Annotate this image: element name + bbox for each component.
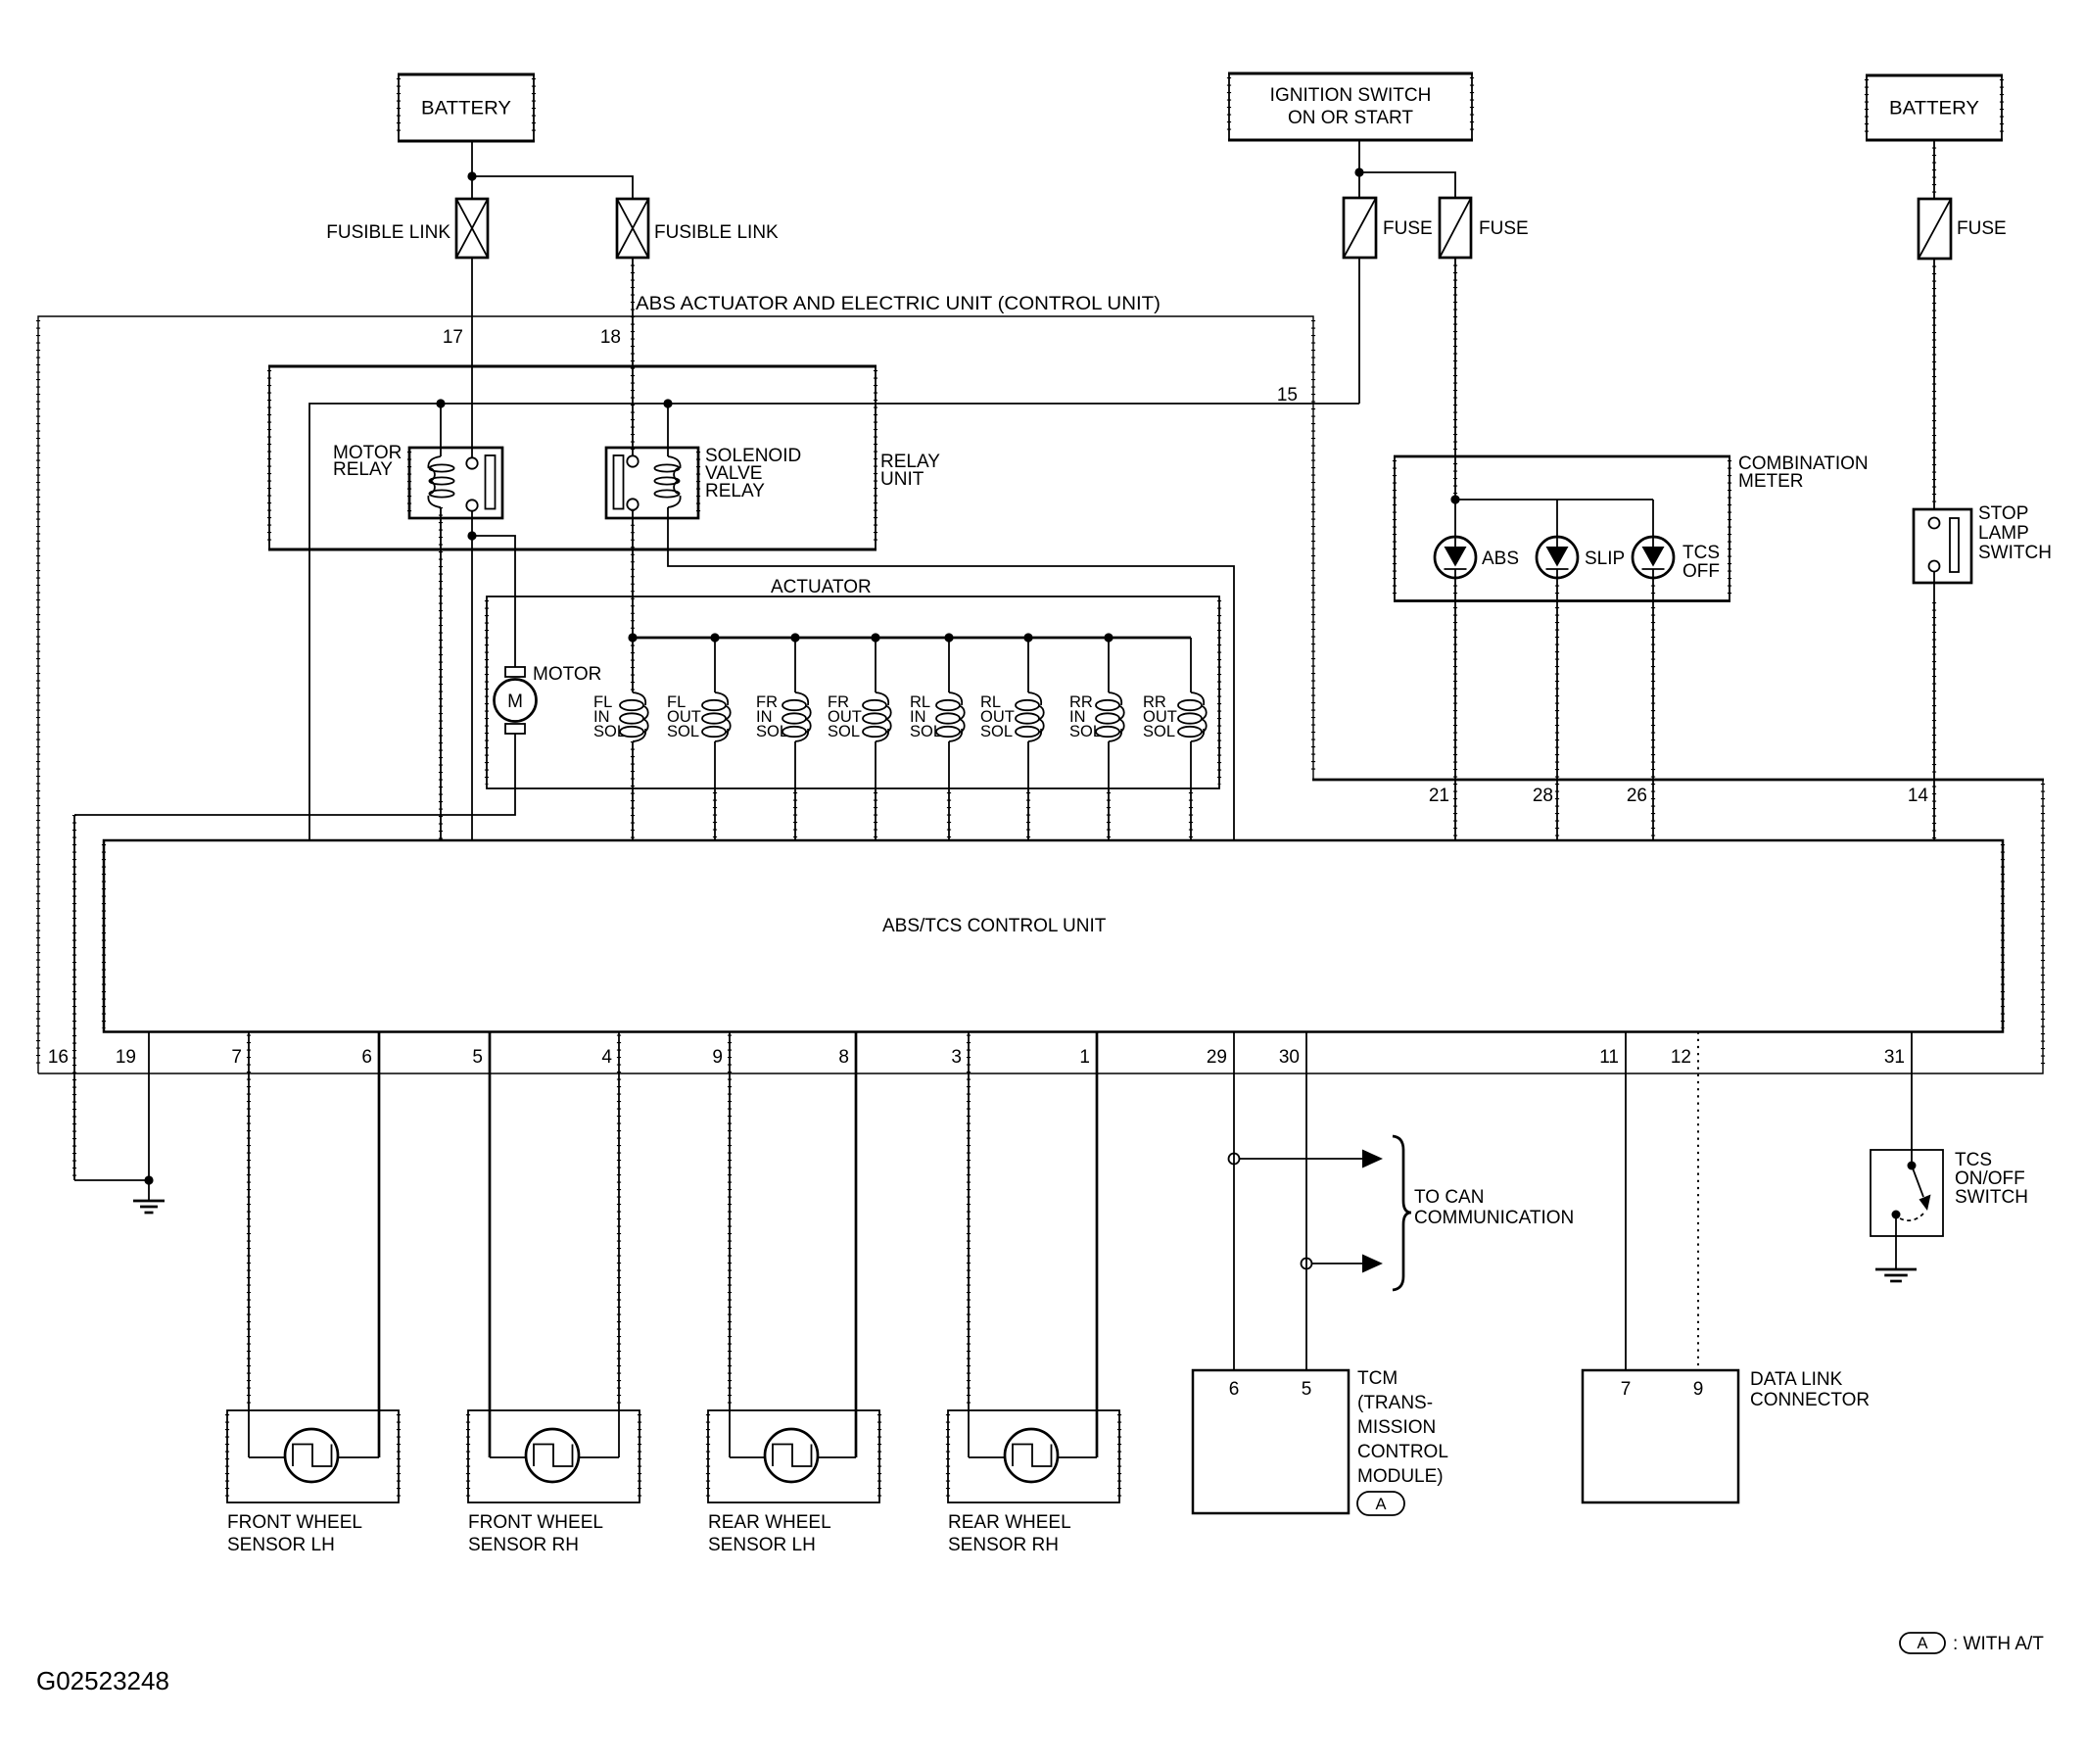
wheel sensor box REAR WHEEL SENSOR LH — [708, 1410, 879, 1502]
TCM box — [1193, 1370, 1349, 1513]
wire ABS lamp to control unit pin 21 — [1454, 578, 1456, 840]
solenoid FR OUT SOL — [863, 692, 891, 741]
wire control unit pin 11 to data link connector pin 7 — [1625, 1032, 1627, 1371]
svg-text:SOL: SOL — [828, 723, 860, 740]
svg-text:G02523248: G02523248 — [36, 1666, 169, 1695]
svg-text:14: 14 — [1908, 786, 1929, 806]
wire FR OUT SOL to control unit — [875, 741, 877, 840]
svg-text:ON OR START: ON OR START — [1288, 108, 1413, 128]
svg-text:UNIT: UNIT — [880, 469, 924, 490]
wheel sensor box FRONT WHEEL SENSOR LH — [227, 1410, 399, 1502]
wire bus to FL OUT SOL — [714, 638, 716, 692]
node bus tap FR OUT SOL — [871, 633, 879, 642]
svg-text:18: 18 — [600, 327, 621, 348]
svg-text:1: 1 — [1079, 1047, 1090, 1068]
svg-text:TCS: TCS — [1955, 1150, 1992, 1170]
svg-text:4: 4 — [601, 1047, 612, 1068]
svg-text:6: 6 — [361, 1047, 372, 1068]
solenoid valve relay K2 — [606, 448, 698, 518]
svg-text:12: 12 — [1671, 1047, 1691, 1068]
svg-text:TCM: TCM — [1357, 1368, 1398, 1389]
svg-text:METER: METER — [1738, 471, 1804, 492]
wire tap to motor relay coil — [440, 404, 442, 456]
node combination meter feed junction — [1450, 495, 1459, 503]
svg-text:ABS ACTUATOR AND ELECTRIC UNIT: ABS ACTUATOR AND ELECTRIC UNIT (CONTROL … — [636, 294, 1161, 314]
svg-text:7: 7 — [1621, 1379, 1632, 1400]
wire FL OUT SOL to control unit — [714, 741, 716, 840]
svg-text:SOL: SOL — [667, 723, 699, 740]
wire RL OUT SOL to control unit — [1027, 741, 1029, 840]
svg-text:IGNITION SWITCH: IGNITION SWITCH — [1270, 85, 1432, 106]
node solenoid valve relay coil tap — [663, 399, 672, 407]
svg-text:TCS: TCS — [1682, 543, 1720, 563]
ground chassis right — [1875, 1249, 1917, 1281]
svg-text:ON/OFF: ON/OFF — [1955, 1168, 2025, 1189]
motor relay contact circles — [466, 457, 477, 468]
svg-text:17: 17 — [443, 327, 463, 348]
wheel sensor box FRONT WHEEL SENSOR RH — [468, 1410, 640, 1502]
wire RR OUT SOL to control unit — [1190, 741, 1192, 840]
node bus tap RL IN SOL — [944, 633, 953, 642]
CAN arrow lower — [1312, 1263, 1363, 1264]
fusible link F1 — [456, 199, 488, 258]
svg-text:A: A — [1375, 1496, 1386, 1513]
svg-text:SOL: SOL — [756, 723, 788, 740]
wire fusible link 2 to solenoid valve relay contact, pin 18 — [632, 258, 634, 456]
wire control unit pin 8 to REAR WHEEL SENSOR LH — [855, 1032, 858, 1458]
wire solenoid valve relay contact to actuator bus — [632, 510, 634, 638]
node ground junction — [144, 1175, 153, 1184]
wire motor relay contact to junction — [471, 511, 473, 536]
svg-text:21: 21 — [1429, 786, 1449, 806]
svg-text:FRONT WHEEL: FRONT WHEEL — [227, 1512, 362, 1533]
wire TCS switch to ground — [1895, 1218, 1897, 1249]
wire bus to RL OUT SOL — [1027, 638, 1029, 692]
wire bus to FL IN SOL — [632, 638, 634, 692]
svg-text:SWITCH: SWITCH — [1978, 543, 2052, 563]
svg-text:REAR WHEEL: REAR WHEEL — [948, 1512, 1071, 1533]
wire control unit pin 3 to REAR WHEEL SENSOR RH — [968, 1032, 970, 1458]
svg-text:REAR WHEEL: REAR WHEEL — [708, 1512, 831, 1533]
wire RL IN SOL to control unit — [948, 741, 950, 840]
svg-text:STOP: STOP — [1978, 503, 2028, 524]
svg-text:SOL: SOL — [980, 723, 1013, 740]
svg-text:3: 3 — [951, 1047, 962, 1068]
svg-text:SOL: SOL — [1069, 723, 1102, 740]
svg-text:LAMP: LAMP — [1978, 523, 2029, 544]
svg-text:MOTOR: MOTOR — [533, 664, 601, 685]
wire meter internal feed — [1455, 500, 1653, 537]
svg-text:ACTUATOR: ACTUATOR — [771, 577, 872, 597]
svg-text:16: 16 — [48, 1047, 69, 1068]
svg-text:COMMUNICATION: COMMUNICATION — [1414, 1208, 1574, 1228]
motor relay coil — [428, 456, 453, 507]
solenoid valve relay coil — [654, 456, 680, 507]
wire sensor leads REAR WHEEL SENSOR RH — [969, 1456, 1005, 1458]
wire control unit pin 19 to ground — [148, 1032, 150, 1181]
node bus tap RL OUT SOL — [1023, 633, 1032, 642]
data link connector box — [1583, 1370, 1738, 1502]
wire junction to motor — [472, 536, 515, 667]
wire junction down to control unit — [471, 536, 473, 840]
wire bus to FR OUT SOL — [875, 638, 877, 692]
fuse F2 — [1440, 198, 1471, 258]
svg-text:19: 19 — [116, 1047, 136, 1068]
solenoid RR IN SOL — [1096, 692, 1124, 741]
battery B2 — [1866, 75, 2003, 140]
wire tap to solenoid valve relay coil — [667, 404, 669, 456]
motor relay contact bar — [486, 455, 496, 509]
node bus tap RR IN SOL — [1104, 633, 1113, 642]
relay unit box — [268, 366, 877, 549]
svg-text:CONNECTOR: CONNECTOR — [1750, 1390, 1870, 1410]
svg-text:9: 9 — [1693, 1379, 1704, 1400]
solenoid FR IN SOL — [782, 692, 811, 741]
wire control unit pin 12 to data link connector pin 9 — [1697, 1032, 1699, 1371]
wheel sensor box REAR WHEEL SENSOR RH — [948, 1410, 1119, 1502]
wire battery 1 to junction — [471, 141, 473, 199]
ground chassis left — [133, 1180, 165, 1213]
node CAN tap 29 — [1229, 1154, 1240, 1165]
svg-text:BATTERY: BATTERY — [1889, 99, 1979, 119]
svg-text:TO CAN: TO CAN — [1414, 1187, 1484, 1208]
node motor relay output junction — [467, 531, 476, 540]
svg-text:: WITH A/T: : WITH A/T — [1953, 1634, 2044, 1654]
fuse F1 — [1344, 198, 1376, 258]
svg-text:SOL: SOL — [1143, 723, 1175, 740]
wire 15 feed line to relay coils — [309, 404, 1359, 840]
svg-text:DATA LINK: DATA LINK — [1750, 1369, 1843, 1390]
svg-text:SENSOR LH: SENSOR LH — [708, 1535, 816, 1555]
indicator lamp SLIP — [1537, 537, 1578, 578]
wire bus to RL IN SOL — [948, 638, 950, 692]
wire sensor leads FRONT WHEEL SENSOR RH — [490, 1456, 526, 1458]
svg-text:8: 8 — [838, 1047, 849, 1068]
wire control unit pin 5 to FRONT WHEEL SENSOR RH — [489, 1032, 492, 1458]
svg-text:MISSION: MISSION — [1357, 1417, 1436, 1438]
svg-text:SENSOR RH: SENSOR RH — [468, 1535, 579, 1555]
solenoid RL IN SOL — [936, 692, 965, 741]
wire bus to RR OUT SOL — [1190, 638, 1192, 692]
motor M1 — [495, 667, 537, 734]
stop lamp switch — [1914, 509, 1971, 583]
svg-text:SLIP: SLIP — [1585, 548, 1625, 569]
svg-text:SENSOR RH: SENSOR RH — [948, 1535, 1059, 1555]
svg-text:BATTERY: BATTERY — [421, 99, 511, 119]
svg-text:15: 15 — [1277, 385, 1298, 405]
sensor element FRONT WHEEL SENSOR LH — [285, 1429, 338, 1482]
node CAN tap 30 — [1302, 1259, 1312, 1269]
sensor element FRONT WHEEL SENSOR RH — [526, 1429, 579, 1482]
svg-text:26: 26 — [1627, 786, 1647, 806]
wire control unit pin 31 to TCS switch — [1911, 1032, 1913, 1167]
svg-text:CONTROL: CONTROL — [1357, 1442, 1448, 1462]
motor relay K1 — [409, 448, 502, 518]
indicator lamp TCS OFF — [1633, 537, 1674, 578]
svg-text:28: 28 — [1533, 786, 1553, 806]
svg-text:11: 11 — [1599, 1047, 1619, 1068]
node bus tap FL IN SOL — [628, 633, 637, 642]
solenoid RR OUT SOL — [1178, 692, 1207, 741]
wire fusible link 1 to motor relay contact, pin 17 — [471, 258, 473, 457]
svg-text:FUSE: FUSE — [1957, 218, 2007, 239]
wire bus to RR IN SOL — [1108, 638, 1110, 692]
wire ignition switch to junction — [1358, 140, 1360, 198]
indicator lamp ABS — [1435, 537, 1476, 578]
node bus tap FR IN SOL — [790, 633, 799, 642]
solenoid FL OUT SOL — [702, 692, 731, 741]
node motor relay coil tap — [436, 399, 445, 407]
svg-text:SENSOR LH: SENSOR LH — [227, 1535, 335, 1555]
sensor element REAR WHEEL SENSOR LH — [765, 1429, 818, 1482]
solenoid valve relay contact circles — [627, 455, 638, 466]
wire fuse 3 to stop lamp switch — [1933, 259, 1935, 509]
wire motor to ground run — [149, 734, 515, 815]
svg-text:RELAY: RELAY — [705, 481, 765, 501]
wire control unit pin 9 to REAR WHEEL SENSOR LH — [729, 1032, 731, 1458]
node battery-1 branch junction — [467, 171, 476, 180]
wire SLIP lamp to control unit pin 28 — [1556, 578, 1558, 840]
svg-text:FRONT WHEEL: FRONT WHEEL — [468, 1512, 603, 1533]
wire bus to FR IN SOL — [794, 638, 796, 692]
TCM A/T flag oval — [1357, 1492, 1404, 1515]
wire sensor leads REAR WHEEL SENSOR LH — [730, 1456, 765, 1458]
svg-text:FUSIBLE LINK: FUSIBLE LINK — [326, 222, 450, 243]
svg-text:FUSIBLE LINK: FUSIBLE LINK — [654, 222, 779, 243]
wire TCS OFF lamp to control unit pin 26 — [1652, 578, 1654, 840]
svg-text:A: A — [1917, 1635, 1927, 1652]
wire fuse 2 to combination meter — [1454, 258, 1456, 500]
TCS on/off switch — [1871, 1150, 1943, 1236]
wire FR IN SOL to control unit — [794, 741, 796, 840]
svg-text:6: 6 — [1229, 1379, 1240, 1400]
CAN arrow upper — [1240, 1158, 1363, 1160]
CAN brace — [1393, 1136, 1411, 1290]
ABS/TCS control unit box — [104, 840, 2003, 1032]
svg-text:RELAY: RELAY — [333, 459, 393, 480]
wire control unit pin 4 to FRONT WHEEL SENSOR RH — [618, 1032, 620, 1458]
wire FL IN SOL to control unit — [632, 741, 634, 840]
node ignition branch junction — [1354, 167, 1363, 176]
wire control unit pin 30 to TCM pin 5 — [1305, 1032, 1307, 1371]
svg-text:7: 7 — [231, 1047, 242, 1068]
wire RR IN SOL to control unit — [1108, 741, 1110, 840]
svg-text:SOL: SOL — [910, 723, 942, 740]
svg-text:FUSE: FUSE — [1479, 218, 1529, 239]
wire control unit pin 7 to FRONT WHEEL SENSOR LH — [248, 1032, 250, 1458]
solenoid FL IN SOL — [620, 692, 648, 741]
wire stop lamp switch to control unit pin 14 — [1933, 572, 1935, 603]
combination meter box — [1394, 456, 1730, 601]
svg-text:M: M — [507, 691, 523, 712]
svg-text:SWITCH: SWITCH — [1955, 1187, 2028, 1208]
solenoid RL OUT SOL — [1016, 692, 1044, 741]
sensor element REAR WHEEL SENSOR RH — [1005, 1429, 1058, 1482]
svg-text:5: 5 — [472, 1047, 483, 1068]
battery B1 — [398, 74, 535, 141]
svg-text:FUSE: FUSE — [1383, 218, 1433, 239]
svg-text:29: 29 — [1207, 1047, 1227, 1068]
svg-text:30: 30 — [1279, 1047, 1300, 1068]
svg-text:5: 5 — [1302, 1379, 1312, 1400]
wire control unit pin 6 to FRONT WHEEL SENSOR LH — [378, 1032, 381, 1458]
svg-text:OFF: OFF — [1682, 561, 1720, 582]
solenoid valve relay contact bar — [614, 455, 624, 509]
legend A/T flag oval — [1900, 1633, 1945, 1653]
svg-text:MODULE): MODULE) — [1357, 1466, 1444, 1487]
actuator box — [487, 596, 1219, 788]
wire fuse 1 down to node 15 line — [1358, 258, 1360, 404]
svg-text:31: 31 — [1884, 1047, 1905, 1068]
wire junction to fusible link 2 — [472, 176, 633, 199]
wire sensor leads FRONT WHEEL SENSOR LH — [249, 1456, 285, 1458]
enclosure ABS actuator and electric unit (control unit) — [38, 316, 2044, 1073]
wire junction to fuse 2 — [1359, 172, 1455, 198]
wire control unit pin 29 to TCM pin 6 — [1233, 1032, 1235, 1371]
svg-text:SOL: SOL — [593, 723, 626, 740]
fuse F3 — [1919, 199, 1951, 259]
svg-text:ABS/TCS CONTROL UNIT: ABS/TCS CONTROL UNIT — [882, 916, 1107, 936]
actuator solenoid bus — [633, 637, 1191, 640]
svg-text:ABS: ABS — [1482, 548, 1519, 569]
wire motor relay coil to control unit pin — [440, 507, 442, 840]
wire control unit pin 1 to REAR WHEEL SENSOR RH — [1096, 1032, 1099, 1458]
fusible link F2 — [617, 199, 648, 258]
ignition switch — [1228, 73, 1473, 140]
wire solenoid valve relay coil out — [668, 507, 1234, 840]
wire ground run down leg, pin 16 — [73, 815, 75, 1180]
svg-text:(TRANS-: (TRANS- — [1357, 1393, 1433, 1413]
svg-text:9: 9 — [712, 1047, 723, 1068]
wire battery 2 to fuse 3 — [1933, 140, 1935, 199]
node bus tap FL OUT SOL — [710, 633, 719, 642]
